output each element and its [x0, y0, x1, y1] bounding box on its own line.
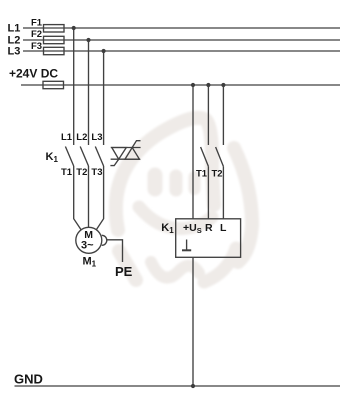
wire drop R: [207, 85, 209, 145]
contact K1 pole 2: [80, 147, 88, 167]
node +24V b: [206, 83, 210, 87]
device K1 box: [176, 219, 241, 257]
node L2: [86, 38, 90, 42]
svg-text:T1: T1: [196, 168, 208, 179]
wire drop +Us: [192, 85, 194, 219]
wire drop L3 to contact: [103, 51, 105, 145]
rail L1: [23, 27, 340, 29]
svg-text:K1: K1: [46, 151, 59, 164]
wire drop L1 to contact: [73, 28, 75, 145]
svg-text:GND: GND: [14, 372, 43, 387]
svg-text:L3: L3: [91, 132, 102, 143]
wire T2 to motor: [88, 166, 90, 227]
svg-text:M1: M1: [83, 256, 97, 269]
contact K1 pole 3: [95, 147, 103, 167]
node L1: [72, 26, 76, 30]
contact K1 aux L: [216, 147, 224, 166]
rail L3: [23, 50, 340, 52]
contact K1 pole 1: [65, 147, 73, 167]
wire drop L: [222, 85, 224, 145]
rail L2: [23, 39, 340, 41]
rail GND: [15, 385, 341, 387]
PE wire: [107, 240, 123, 262]
svg-text:T2: T2: [76, 167, 87, 178]
node GND: [191, 384, 195, 388]
svg-text:L2: L2: [76, 132, 87, 143]
wire R to box: [207, 166, 209, 219]
svg-text:L1: L1: [8, 23, 21, 35]
PE pigtail arc: [102, 235, 107, 245]
svg-text:+24V DC: +24V DC: [9, 67, 58, 81]
wire box to GND: [192, 257, 194, 386]
svg-text:T2: T2: [212, 168, 223, 179]
svg-text:F1: F1: [31, 18, 43, 29]
wire drop L2 to contact: [88, 40, 90, 145]
wire T3 to motor: [96, 166, 103, 230]
wire L to box: [222, 166, 224, 219]
ground symbol in box: [186, 240, 188, 251]
svg-text:F3: F3: [31, 41, 42, 52]
contact K1 aux R: [201, 147, 209, 166]
node L3: [102, 49, 106, 53]
svg-text:L3: L3: [8, 45, 21, 57]
svg-text:3~: 3~: [81, 240, 94, 252]
svg-text:L1: L1: [61, 132, 73, 143]
triac symbol: [110, 141, 140, 166]
rail +24V DC: [21, 84, 340, 86]
node +24V a: [191, 83, 195, 87]
svg-text:L: L: [220, 222, 227, 234]
svg-text:F2: F2: [31, 29, 42, 40]
fuse F4 (24V): [43, 81, 64, 88]
svg-text:PE: PE: [115, 264, 133, 279]
fuse F1: [44, 25, 65, 32]
motor M1 circle: [76, 227, 102, 253]
wire T1 to motor: [74, 166, 81, 230]
svg-text:T1: T1: [61, 167, 73, 178]
fuse F2: [44, 36, 65, 43]
svg-text:T3: T3: [91, 167, 102, 178]
node +24V c: [221, 83, 225, 87]
fuse F3: [44, 47, 65, 54]
svg-text:R: R: [205, 222, 213, 234]
